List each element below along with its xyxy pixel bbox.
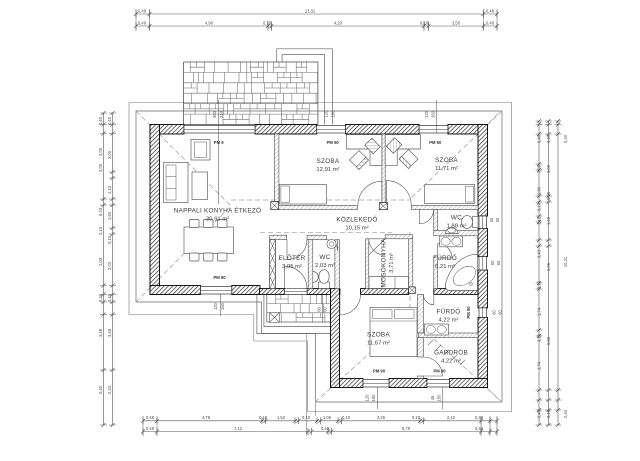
svg-text:11,71 m²: 11,71 m²	[435, 166, 458, 172]
svg-text:150: 150	[436, 394, 441, 402]
door wc1 arc	[326, 240, 337, 251]
svg-text:4,78: 4,78	[202, 415, 211, 420]
svg-text:3,71 m²: 3,71 m²	[389, 253, 395, 273]
svg-text:11,67 m²: 11,67 m²	[367, 341, 390, 347]
leader window wardrobe bottom	[442, 388, 444, 410]
wall bathroom2/wardrobe divider	[419, 333, 478, 338]
svg-text:13,31: 13,31	[305, 8, 316, 13]
svg-text:3,48: 3,48	[107, 328, 112, 337]
post bedroom partition X	[379, 203, 387, 210]
chair bedroom1 small	[365, 138, 381, 154]
svg-text:SZOBA: SZOBA	[435, 157, 458, 164]
wall corridor north segment 2	[411, 205, 478, 209]
dimension column left-1	[100, 111, 107, 427]
svg-text:0,40: 0,40	[537, 134, 542, 143]
svg-text:3,50: 3,50	[452, 20, 461, 25]
svg-text:FÜRDŐ: FÜRDŐ	[437, 307, 461, 316]
dimension column left-2	[109, 111, 116, 427]
svg-text:1,10: 1,10	[537, 216, 542, 225]
wall living bottom segment 2	[232, 286, 260, 295]
svg-text:0,40: 0,40	[107, 385, 112, 394]
svg-text:PM 90: PM 90	[429, 140, 442, 145]
svg-text:210: 210	[219, 110, 224, 118]
wall hall bottom joint	[339, 289, 341, 295]
svg-text:4,90: 4,90	[205, 20, 214, 25]
extension lines bottom	[143, 334, 497, 436]
wall hall bottom segment 1	[260, 289, 285, 295]
desk bedroom2	[385, 135, 420, 166]
wc1 water heater	[327, 239, 336, 248]
svg-text:0,10: 0,10	[537, 202, 542, 211]
svg-text:120: 120	[424, 110, 429, 118]
bed bedroom3	[370, 308, 417, 357]
svg-text:3,43: 3,43	[537, 249, 542, 258]
svg-text:0,10: 0,10	[537, 280, 542, 289]
svg-text:150: 150	[431, 110, 436, 118]
svg-text:PM 90: PM 90	[466, 306, 471, 319]
svg-text:0,10: 0,10	[107, 235, 112, 244]
svg-text:PM 90: PM 90	[433, 369, 446, 374]
svg-text:2,25: 2,25	[546, 262, 551, 271]
svg-text:3,00: 3,00	[98, 147, 103, 156]
door vestibule arc	[287, 240, 307, 260]
svg-text:120: 120	[213, 302, 218, 310]
chair bedroom1 square	[350, 151, 369, 170]
terrace flagstone paving	[184, 62, 318, 125]
svg-text:10,21: 10,21	[563, 256, 568, 267]
bed bedroom1	[279, 184, 326, 204]
svg-text:150: 150	[371, 394, 376, 402]
sofa living room	[164, 163, 189, 203]
wall wing bottom segment 1	[331, 379, 364, 388]
svg-text:5,58: 5,58	[546, 336, 551, 345]
svg-text:2,03 m²: 2,03 m²	[315, 263, 335, 269]
svg-text:0,40: 0,40	[98, 116, 103, 125]
svg-text:0,48: 0,48	[486, 8, 495, 13]
extension lines top	[136, 9, 497, 31]
wall exterior top segment 3	[346, 125, 420, 135]
svg-text:MOSÓKONYHA: MOSÓKONYHA	[379, 238, 388, 288]
dimension row bottom-2	[141, 428, 499, 435]
dimension column right-2	[545, 119, 552, 427]
svg-text:3,05 m²: 3,05 m²	[282, 264, 302, 270]
svg-text:150: 150	[330, 110, 335, 118]
svg-text:0,10: 0,10	[537, 333, 542, 342]
svg-text:60: 60	[496, 260, 501, 265]
svg-text:1,06: 1,06	[323, 415, 332, 420]
svg-text:60: 60	[490, 260, 495, 265]
wall bedroom3/bathroom2 partition	[417, 294, 423, 333]
svg-text:3,26: 3,26	[377, 415, 386, 420]
roof hip and ridge dashed lines	[136, 111, 231, 206]
wall vestibule top segment 1	[270, 235, 287, 240]
svg-text:0,48: 0,48	[146, 426, 155, 431]
dimension row top-2	[134, 23, 499, 30]
dimension row top-1	[134, 11, 499, 18]
svg-text:0,40: 0,40	[546, 134, 551, 143]
svg-text:2,03: 2,03	[98, 257, 103, 266]
wall exterior top segment 2	[255, 125, 317, 135]
entrance door arc and leaf	[285, 266, 308, 289]
svg-text:0,48: 0,48	[486, 20, 495, 25]
wall living/bedroom1 partition	[275, 134, 279, 202]
wall wing left	[331, 289, 340, 388]
wc2 washbasin	[446, 228, 458, 234]
wall laundry north	[385, 235, 413, 239]
svg-text:120: 120	[365, 394, 370, 402]
svg-text:0,40: 0,40	[98, 385, 103, 394]
svg-text:WC: WC	[319, 254, 330, 261]
svg-text:60: 60	[316, 307, 321, 312]
svg-text:3,00: 3,00	[546, 164, 551, 173]
wall hall bottom segment 2	[307, 289, 331, 295]
bathroom2 double washbasin	[425, 324, 449, 335]
chair bedroom2 square	[399, 150, 418, 169]
post living room corner X	[271, 202, 279, 210]
svg-text:GARDRÓB: GARDRÓB	[434, 348, 468, 357]
leader window living bottom	[220, 295, 222, 317]
svg-text:30,91 m²: 30,91 m²	[206, 217, 229, 223]
window bathroom2 right wall	[479, 308, 487, 318]
svg-text:WC: WC	[451, 215, 462, 222]
wall bathroom1 west	[434, 256, 438, 289]
svg-text:150: 150	[220, 302, 225, 310]
svg-text:0,40: 0,40	[537, 409, 542, 418]
svg-text:0,10: 0,10	[302, 415, 311, 420]
svg-text:60: 60	[495, 217, 500, 222]
window bedroom1	[317, 126, 346, 134]
svg-text:0,40: 0,40	[546, 409, 551, 418]
svg-text:7,12: 7,12	[234, 426, 243, 431]
wc1 toilet	[319, 282, 330, 289]
wall bathroom1 bottom segment	[434, 289, 478, 295]
eaves outline inner	[136, 111, 502, 402]
svg-text:2,42: 2,42	[447, 415, 456, 420]
svg-text:2,03: 2,03	[107, 261, 112, 270]
wardrobe rail marks	[428, 340, 465, 365]
svg-text:60: 60	[489, 217, 494, 222]
post laundry corner X	[409, 287, 416, 294]
svg-text:KÖZLEKEDŐ: KÖZLEKEDŐ	[336, 215, 377, 224]
wall vestibule/wc partition	[308, 240, 313, 289]
wall wing bottom segment 3	[450, 379, 488, 388]
wall corridor north segment 1	[279, 205, 358, 209]
wall exterior right segment 2	[478, 229, 488, 257]
svg-text:1,93: 1,93	[107, 211, 112, 220]
laundry counter	[369, 277, 409, 289]
svg-text:PM 90: PM 90	[327, 140, 340, 145]
wall wc east	[335, 240, 340, 289]
svg-text:0,40: 0,40	[563, 409, 568, 418]
svg-text:10,15 m²: 10,15 m²	[345, 226, 368, 232]
dimension column right-1	[536, 119, 543, 427]
leader window bedroom2	[435, 100, 437, 133]
leader terrace door 300/210	[218, 100, 220, 204]
svg-text:0,90: 0,90	[546, 191, 551, 200]
door bedroom2 arc	[387, 181, 412, 206]
svg-text:0,40: 0,40	[107, 116, 112, 125]
window bedroom3 bottom	[363, 380, 389, 388]
svg-text:1,74: 1,74	[537, 361, 542, 370]
svg-text:60: 60	[498, 310, 503, 315]
svg-text:3,48: 3,48	[98, 328, 103, 337]
chair bedroom2 small	[386, 138, 402, 154]
svg-text:PM 90: PM 90	[373, 369, 386, 374]
svg-text:3,00: 3,00	[98, 163, 103, 172]
door corridor-passage arc	[420, 210, 434, 224]
svg-text:1,10: 1,10	[546, 216, 551, 225]
svg-text:0,40: 0,40	[107, 293, 112, 302]
svg-text:0,48: 0,48	[475, 426, 484, 431]
svg-text:4,20: 4,20	[334, 20, 343, 25]
svg-text:PM 90: PM 90	[213, 275, 226, 280]
svg-text:FÜRDŐ: FÜRDŐ	[433, 253, 457, 262]
terrace step outlines top right	[277, 49, 333, 125]
wall laundry west	[366, 239, 369, 289]
door bedroom1 arc	[358, 181, 382, 205]
wc2 toilet	[473, 217, 479, 228]
entrance door threshold	[285, 289, 308, 295]
entrance porch flagstone paving	[267, 294, 331, 322]
wall exterior top segment 4	[448, 125, 488, 135]
svg-text:0,10: 0,10	[342, 415, 351, 420]
door bathroom2 arc	[423, 294, 433, 304]
svg-text:3,00: 3,00	[537, 164, 542, 173]
bathroom1 double washbasin	[440, 236, 463, 247]
window wardrobe bottom	[427, 380, 450, 388]
svg-text:0,10: 0,10	[263, 20, 272, 25]
dining chairs bottom row	[190, 253, 200, 261]
door bathroom1 arc	[438, 244, 452, 258]
svg-text:1,52: 1,52	[277, 415, 286, 420]
svg-text:0,40: 0,40	[321, 426, 330, 431]
wall bedroom3/wardrobe partition upper	[417, 338, 423, 357]
coffee table living room	[192, 172, 208, 200]
dining chairs top row	[190, 220, 200, 228]
svg-text:1,10: 1,10	[107, 185, 112, 194]
svg-text:1,74: 1,74	[537, 307, 542, 316]
wall bedroom1/bedroom2 partition	[382, 134, 385, 203]
svg-text:0,48: 0,48	[138, 20, 147, 25]
svg-text:0,48: 0,48	[138, 8, 147, 13]
svg-text:PM 9: PM 9	[214, 140, 224, 145]
eaves outline outer	[129, 103, 512, 412]
wall laundry east	[409, 239, 413, 289]
bed bedroom2	[425, 185, 475, 204]
wall living bottom segment 1	[150, 286, 201, 295]
desk bedroom1	[346, 135, 382, 166]
window wc right wall	[479, 216, 487, 229]
dimension row bottom-1	[141, 417, 499, 424]
wall vestibule top segment 2	[307, 235, 326, 240]
svg-text:3,00: 3,00	[107, 150, 112, 159]
leader porch steps	[322, 295, 324, 323]
door bedroom3 arc	[340, 294, 361, 315]
wall exterior right segment 1	[478, 125, 488, 217]
porch corner X mark	[270, 313, 280, 323]
svg-text:6,21 m²: 6,21 m²	[435, 264, 455, 270]
svg-text:6,33: 6,33	[98, 207, 103, 216]
svg-text:1,88 m²: 1,88 m²	[447, 224, 467, 230]
svg-text:NAPPALI KONYHA ÉTKEZŐ: NAPPALI KONYHA ÉTKEZŐ	[174, 206, 262, 215]
wall exterior right segment 4	[478, 317, 488, 387]
porch steps	[257, 295, 331, 334]
vestibule west glazed wall	[270, 240, 276, 289]
wall bedroom3 top segment	[361, 289, 409, 295]
wall wc2/bathroom1 divider	[434, 230, 478, 235]
window bedroom2	[419, 126, 448, 134]
wall exterior left	[150, 125, 160, 295]
svg-text:0,48: 0,48	[146, 415, 155, 420]
svg-text:12,91 m²: 12,91 m²	[316, 167, 339, 173]
svg-text:300: 300	[212, 110, 217, 118]
svg-text:120: 120	[324, 110, 329, 118]
leader window bedroom3 bottom	[376, 388, 378, 410]
svg-text:4,22 m²: 4,22 m²	[439, 318, 459, 324]
svg-text:0,10: 0,10	[98, 226, 103, 235]
window terrace door living room	[184, 126, 255, 134]
wc1 washbasin	[313, 272, 319, 283]
svg-text:45: 45	[430, 395, 435, 400]
svg-text:0,48: 0,48	[475, 415, 484, 420]
wall exterior right segment 3	[478, 270, 488, 308]
dimension column right-3	[555, 119, 562, 427]
bathroom1 corner bathtub	[446, 254, 478, 290]
wall bedroom3/wardrobe partition stub	[417, 376, 423, 379]
svg-text:0,10: 0,10	[412, 415, 421, 420]
svg-text:4,22 m²: 4,22 m²	[441, 359, 461, 365]
door wardrobe arc	[423, 357, 442, 376]
svg-text:5,79: 5,79	[402, 426, 411, 431]
svg-text:ELŐTÉR: ELŐTÉR	[278, 253, 305, 262]
wall wing bottom segment 2	[389, 379, 427, 388]
svg-text:0,40: 0,40	[98, 293, 103, 302]
svg-text:60: 60	[492, 310, 497, 315]
svg-text:60: 60	[323, 307, 328, 312]
window bathroom1 right wall	[479, 257, 487, 271]
door laundry arc	[369, 239, 385, 255]
window living bottom	[201, 287, 232, 295]
svg-text:0,10: 0,10	[259, 415, 268, 420]
svg-text:SZOBA: SZOBA	[317, 158, 340, 165]
tv cabinet living room	[191, 140, 210, 161]
wall exterior top segment 1	[150, 125, 184, 135]
svg-text:0,18: 0,18	[420, 20, 429, 25]
dining table	[184, 227, 234, 254]
wall wc2 west	[434, 210, 438, 231]
svg-text:SZOBA: SZOBA	[367, 332, 390, 339]
svg-text:0,40: 0,40	[563, 134, 568, 143]
svg-text:0,90: 0,90	[537, 186, 542, 195]
